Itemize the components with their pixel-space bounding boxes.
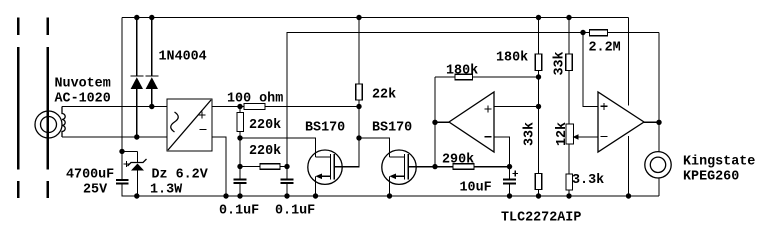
diode D1 1N4004 (cathode lead to top rail) xyxy=(130,18,143,138)
junction: 100 ohm to 22k column xyxy=(356,104,361,109)
junction: top rail 22k xyxy=(356,15,361,20)
svg-text:0.1uF: 0.1uF xyxy=(219,204,259,219)
junction: rail bridge minus xyxy=(223,193,228,198)
svg-text:3.3k: 3.3k xyxy=(572,173,604,188)
wire: second rail from x287 down xyxy=(287,33,659,167)
junction: rail 3.3k xyxy=(566,193,571,198)
junction: 290k to 10uF xyxy=(507,164,512,169)
svg-text:22k: 22k xyxy=(372,88,396,103)
diode D2 1N4004 (cathode lead to top rail) xyxy=(145,18,158,107)
svg-text:AC-1020: AC-1020 xyxy=(55,92,111,107)
junction: top rail D1 xyxy=(134,15,139,20)
wire: top rail xyxy=(122,17,629,19)
junction: rail V- stub xyxy=(626,193,631,198)
junction: rail C3 xyxy=(284,193,289,198)
junction: +input bias node xyxy=(536,104,541,109)
svg-text:180k: 180k xyxy=(446,64,478,79)
wire: U1b V- supply stub to 0V rail xyxy=(628,136,630,196)
wire: AC line upper from connector to bridge xyxy=(62,106,167,108)
resistor R6 290k xyxy=(435,164,510,170)
wire: U1b output to speaker and 2.2M feedback xyxy=(644,121,659,123)
resistor R9 33k (column B top) xyxy=(566,18,573,125)
junction: 2.2M to +input xyxy=(580,30,585,35)
junction: bridge + to divider xyxy=(237,104,242,109)
resistor R2 220k (upper divider) xyxy=(237,107,244,167)
speaker LS1 Kingstate KPEG260 xyxy=(645,152,671,196)
svg-text:BS170: BS170 xyxy=(305,121,345,136)
wire: Q1 drain node to Q2 gate xyxy=(359,138,390,157)
node A wire: rail drop to zener/capacitor branch xyxy=(122,150,138,152)
svg-text:KPEG260: KPEG260 xyxy=(683,170,739,185)
wire: gate feed for Q1 from divider xyxy=(240,138,316,157)
bridge rectifier B1 xyxy=(167,99,212,151)
junction: rail zener xyxy=(134,193,139,198)
junction: divider to Q1 gate xyxy=(237,135,242,140)
junction: top rail D2 xyxy=(149,15,154,20)
resistor R4 22k xyxy=(356,84,363,100)
capacitor C2 0.1uF xyxy=(234,167,247,197)
resistor R3 220k (horizontal) xyxy=(240,164,287,170)
transistor Q1 BS170 xyxy=(308,150,342,196)
wire: U1a +input to 33k bias node xyxy=(494,106,539,108)
transformer enclosure dashed boundary line 1 xyxy=(17,18,20,199)
svg-text:1N4004: 1N4004 xyxy=(159,50,207,65)
wire: 0V bottom rail xyxy=(122,184,659,197)
junction: rail C2 xyxy=(237,193,242,198)
capacitor C3 0.1uF xyxy=(281,167,294,197)
junction: Q1 drain to Q2 gate xyxy=(356,135,361,140)
wire: top rail left drop to node A xyxy=(121,18,123,152)
wire: bridge + output to 100 ohm and 22k column xyxy=(212,106,359,108)
svg-text:220k: 220k xyxy=(249,118,281,133)
svg-text:4700uF: 4700uF xyxy=(66,168,114,183)
junction: Q2 drain node xyxy=(432,164,437,169)
svg-text:1.3W: 1.3W xyxy=(150,183,183,198)
wire: U1b V+ supply stub from top rail xyxy=(628,18,630,106)
junction: rail 10uF xyxy=(507,193,512,198)
resistor R12 2.2M feedback xyxy=(590,30,608,36)
svg-text:100 ohm: 100 ohm xyxy=(227,92,283,107)
junction: AC lower D1 anode xyxy=(134,134,139,139)
junction: 180k feedback to column A xyxy=(536,74,541,79)
transistor Q2 BS170 xyxy=(382,150,416,196)
svg-text:TLC2272AIP: TLC2272AIP xyxy=(501,211,581,226)
junction: 220k to C3 xyxy=(284,164,289,169)
resistor R8 33k (column A bottom) xyxy=(535,174,542,190)
resistor R5 180k feedback xyxy=(435,74,539,80)
connector J1 (Nuvotem AC-1020 output plug) xyxy=(35,107,65,139)
junction: U1b output node xyxy=(656,120,661,125)
op-amp U1b TLC2272 (pointing right) xyxy=(598,92,644,152)
op-amp U1a TLC2272 (pointing left) xyxy=(435,92,494,152)
svg-text:33k: 33k xyxy=(553,51,568,75)
wire: Q2 drain to op-amp node xyxy=(416,166,435,168)
junction: rail Q1 source xyxy=(313,193,318,198)
junction: AC upper D2 anode xyxy=(149,104,154,109)
capacitor C1 4700uF 25V electrolytic xyxy=(116,151,130,183)
svg-text:12k: 12k xyxy=(555,122,570,146)
svg-text:220k: 220k xyxy=(249,144,281,159)
wire: Q1 drain to 22k node xyxy=(342,18,359,167)
svg-text:290k: 290k xyxy=(442,153,474,168)
svg-text:Nuvotem: Nuvotem xyxy=(55,77,111,92)
svg-text:25V: 25V xyxy=(83,183,108,198)
junction: top rail column A xyxy=(536,15,541,20)
svg-text:33k: 33k xyxy=(523,122,538,146)
resistor R1 100 ohm xyxy=(244,104,265,110)
svg-text:BS170: BS170 xyxy=(372,121,412,136)
svg-text:2.2M: 2.2M xyxy=(589,41,621,56)
svg-text:10uF: 10uF xyxy=(460,181,492,196)
junction: rail Q2 source xyxy=(387,193,392,198)
svg-text:0.1uF: 0.1uF xyxy=(275,204,315,219)
wire: 2.2M left end down to U1b +input xyxy=(583,33,598,107)
potentiometer R10 12k xyxy=(566,124,598,174)
resistor R7 180k bias (column A top) xyxy=(535,18,542,197)
wire: op-amp U1a output column xyxy=(434,77,436,167)
svg-text:180k: 180k xyxy=(496,51,528,66)
wire: U1a -input to 290k/10uF node xyxy=(494,137,510,167)
junction: rail 33k column A xyxy=(536,193,541,198)
junction: 220k to C2 xyxy=(237,164,242,169)
junction: node A xyxy=(119,149,124,154)
capacitor C4 10uF electrolytic xyxy=(503,167,518,196)
resistor R11 3.3k xyxy=(566,174,573,196)
wire: AC line lower from connector to bridge xyxy=(62,136,167,138)
transformer enclosure dashed boundary line 2 xyxy=(46,18,49,199)
junction: U1a output node xyxy=(432,120,437,125)
svg-text:Dz 6.2V: Dz 6.2V xyxy=(152,168,209,183)
zener diode Dz 6.2V 1.3W xyxy=(128,151,147,196)
junction: top rail column B xyxy=(566,15,571,20)
svg-text:Kingstate: Kingstate xyxy=(683,155,755,170)
wire: bridge - output down to 0V rail xyxy=(212,137,226,196)
